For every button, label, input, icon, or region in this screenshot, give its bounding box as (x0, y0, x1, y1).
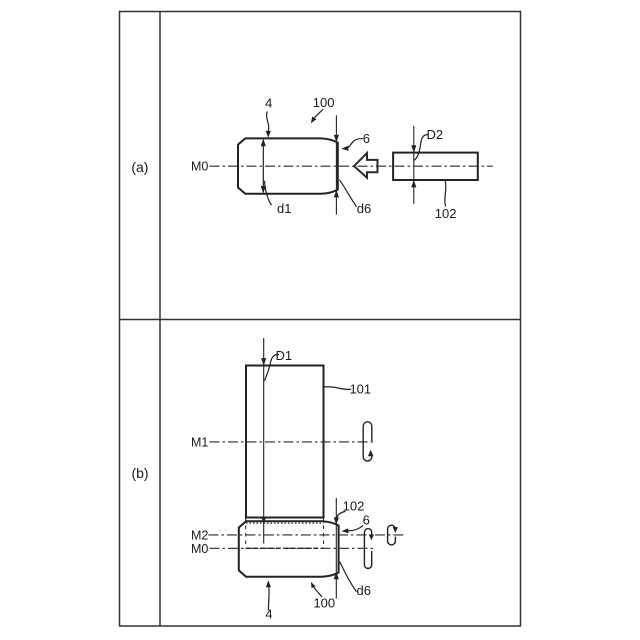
label 6 arrowhead (a) (341, 146, 348, 151)
dimension d6 extension line (b) (335, 498, 337, 599)
valve body 100 outline (b) (239, 521, 339, 576)
dimension D1 arrowhead bottom (b) (261, 517, 266, 524)
svg-text:6: 6 (363, 131, 370, 146)
label 100 leader (a) (315, 109, 324, 117)
dimension D2 extension line (a) (413, 126, 415, 204)
svg-text:d6: d6 (357, 583, 371, 598)
svg-text:100: 100 (313, 596, 335, 611)
label d6 leader (b) (340, 562, 357, 592)
label D2 leader (a) (414, 135, 428, 161)
svg-text:6: 6 (363, 513, 370, 528)
svg-text:M2: M2 (191, 529, 208, 543)
svg-text:d1: d1 (277, 201, 291, 216)
workpiece 102 rectangle (a) (393, 153, 478, 180)
hidden bar 102 right dashed edge (b) (323, 518, 325, 548)
label 6 arrowhead (b) (342, 528, 349, 533)
centerline M1 (b) (210, 441, 376, 443)
rotation symbol at M0 (b) (364, 529, 371, 569)
rotation symbol at M2 (b) (388, 525, 396, 545)
label 6 leader (b) (348, 525, 363, 531)
label 101 leader (b) (324, 387, 351, 390)
centerline M0 (a) (210, 165, 493, 167)
frame divider vertical (159, 12, 161, 627)
dimension d1 line (a) (262, 140, 264, 192)
svg-text:D2: D2 (426, 127, 443, 142)
dimension d1 arrowhead up (261, 139, 266, 146)
hidden bar 102 left dashed edge (b) (245, 518, 247, 548)
dimension d6 arrowhead down (b) (334, 517, 339, 524)
label 102 leader (a) (445, 181, 446, 207)
workpiece 101 rectangle (b) (246, 366, 324, 518)
centerline M2 (b) (208, 534, 403, 536)
svg-text:(a): (a) (131, 159, 148, 175)
svg-text:(b): (b) (131, 465, 148, 481)
label 4 arrowhead (a) (266, 131, 271, 138)
dimension d6 extension line (a) (335, 115, 337, 214)
svg-text:d6: d6 (357, 201, 371, 216)
rotation symbol at M0 arrowhead (b) (369, 535, 374, 541)
dimension D2 arrowhead down (a) (411, 145, 416, 152)
label 100 arrowhead (a) (311, 116, 317, 123)
dimension d6 arrowhead up (a) (334, 190, 339, 197)
rotation symbol at M2 arrowhead (b) (393, 527, 398, 533)
block arrow (a) (354, 153, 378, 178)
label d1 leader (265, 181, 272, 205)
svg-text:102: 102 (435, 206, 457, 221)
dimension d6 arrowhead up (b) (334, 572, 339, 579)
label 4 arrowhead (b) (266, 580, 271, 587)
hidden bar 102 top dotted edge (b) (246, 522, 324, 524)
centerline M0 (b) (210, 547, 375, 549)
rotation symbol at M1 (b) (363, 422, 372, 461)
figure frame (120, 12, 521, 627)
label d6 leader (a) (340, 180, 357, 207)
label D1 leader (b) (265, 355, 280, 381)
dimension d6 arrowhead down (a) (334, 135, 339, 142)
svg-text:101: 101 (349, 381, 371, 396)
svg-text:M1: M1 (191, 435, 208, 449)
svg-text:102: 102 (343, 498, 365, 513)
valve body 100 outline (a) (238, 138, 338, 193)
svg-text:4: 4 (265, 95, 272, 110)
svg-text:M0: M0 (191, 542, 208, 556)
dimension D2 arrowhead up (a) (411, 180, 416, 187)
dimension D1 extension line (b) (263, 338, 265, 544)
label 4 leader (a) (267, 112, 269, 132)
label 4 leader (b) (267, 587, 270, 610)
frame divider horizontal (120, 319, 521, 321)
label 102 leader (b) (336, 511, 345, 518)
svg-text:M0: M0 (191, 160, 208, 174)
svg-text:D1: D1 (275, 348, 292, 363)
label 100 leader (b) (314, 587, 322, 597)
label 100 arrowhead (b) (311, 582, 316, 588)
dimension d1 arrowhead down (261, 186, 266, 193)
label 6 leader (a) (347, 139, 363, 148)
hidden bar 102 bottom dashed edge (b) (246, 547, 324, 549)
dimension D1 arrowhead top (b) (261, 358, 266, 365)
svg-text:100: 100 (313, 95, 335, 110)
rotation symbol at M1 arrowhead (b) (368, 450, 374, 457)
